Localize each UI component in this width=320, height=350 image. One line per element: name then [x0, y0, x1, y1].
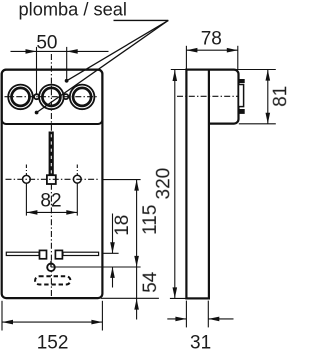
lever square left	[40, 250, 47, 258]
svg-text:81: 81	[270, 86, 288, 107]
pocket square	[47, 175, 56, 184]
front view index panel	[2, 70, 103, 124]
svg-text:54: 54	[140, 271, 161, 293]
vertical centerline of front view	[50, 54, 52, 296]
leader line to lower seal point	[35, 20, 169, 114]
lever bar left	[6, 252, 39, 255]
horizontal centerline through mounting holes	[6, 178, 99, 180]
side view index head block	[209, 70, 239, 124]
dimension 50	[11, 32, 109, 94]
svg-text:82: 82	[40, 190, 61, 211]
svg-text:31: 31	[190, 332, 211, 350]
dimension 81	[239, 70, 291, 124]
hidden slot dashed stadium	[35, 276, 70, 284]
svg-text:18: 18	[112, 215, 133, 236]
lever square right	[55, 250, 62, 258]
bottom extension of front body	[101, 297, 159, 299]
thermometer pocket bar	[49, 132, 54, 176]
svg-text:50: 50	[36, 32, 57, 53]
horizontal centerline through dials	[5, 96, 99, 98]
leader underline under seal	[114, 19, 169, 21]
middle dial	[39, 85, 64, 110]
front view body outline	[2, 70, 103, 299]
svg-text:115: 115	[140, 205, 161, 235]
right dial	[70, 85, 95, 110]
dimension 115	[134, 180, 161, 320]
seal circle left	[34, 94, 39, 99]
center ticks above mounting holes	[26, 165, 77, 176]
left dial	[8, 85, 33, 110]
side view body column	[186, 70, 209, 299]
mounting hole right	[73, 175, 81, 183]
top extension line of side view	[171, 69, 276, 71]
connector on index head	[239, 79, 245, 114]
valve circle	[47, 261, 140, 271]
leader line to seal extension point	[65, 20, 169, 82]
dimension 152	[2, 301, 102, 350]
dimension 82	[26, 183, 77, 215]
dimension 320	[153, 70, 186, 298]
dimension 54	[134, 271, 161, 309]
dimension 31	[167, 301, 233, 350]
dimension 78	[186, 28, 237, 69]
side view centerline	[177, 95, 238, 97]
seal circle right	[63, 94, 68, 99]
svg-text:plomba / seal: plomba / seal	[19, 0, 128, 19]
mounting hole left	[23, 175, 31, 183]
svg-text:320: 320	[153, 168, 174, 200]
label plomba / seal	[19, 0, 128, 19]
extension line at mounting hole level	[102, 179, 140, 181]
lever bar right	[63, 252, 99, 255]
svg-text:152: 152	[37, 332, 69, 350]
dimension 18	[102, 214, 133, 288]
svg-text:78: 78	[201, 28, 222, 49]
